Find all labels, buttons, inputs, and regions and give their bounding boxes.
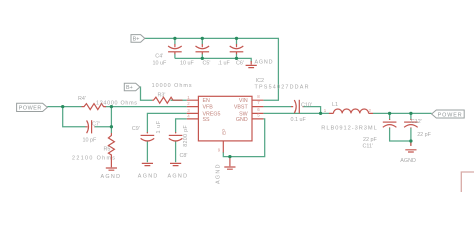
svg-text:22 pF: 22 pF [363, 137, 377, 143]
svg-text:8: 8 [257, 94, 260, 99]
svg-text:B+: B+ [133, 36, 140, 42]
svg-text:.1 uF: .1 uF [218, 61, 231, 67]
svg-text:R4': R4' [78, 96, 86, 102]
svg-text:124000 Ohms: 124000 Ohms [96, 101, 137, 107]
svg-text:2: 2 [187, 101, 190, 106]
svg-text:C8': C8' [180, 153, 188, 159]
svg-text:7: 7 [257, 100, 260, 105]
svg-text:AGND: AGND [138, 173, 158, 179]
svg-text:EN: EN [203, 98, 211, 104]
svg-text:C9': C9' [132, 126, 140, 132]
svg-text:AGND: AGND [215, 164, 221, 184]
svg-text:R3': R3' [158, 93, 166, 99]
svg-text:VFB: VFB [203, 105, 214, 111]
svg-text:10 uF: 10 uF [153, 61, 167, 67]
svg-text:C10': C10' [301, 102, 312, 108]
svg-text:AGND: AGND [101, 174, 121, 180]
svg-text:POWER: POWER [19, 105, 42, 111]
svg-text:VIN: VIN [239, 98, 248, 104]
svg-text:C7': C7' [92, 122, 100, 128]
svg-text:C12': C12' [411, 119, 422, 125]
svg-text:POWER: POWER [438, 112, 462, 118]
svg-text:C4': C4' [155, 54, 163, 60]
svg-text:1: 1 [324, 108, 327, 113]
svg-text:10 pF: 10 pF [83, 137, 97, 143]
svg-text:TPS54027DDAR: TPS54027DDAR [255, 85, 309, 91]
svg-text:22 pF: 22 pF [417, 132, 431, 138]
svg-text:VBST: VBST [234, 105, 249, 111]
svg-text:1: 1 [187, 95, 190, 100]
svg-text:GND: GND [236, 117, 248, 123]
svg-text:2: 2 [369, 108, 372, 113]
svg-text:3: 3 [187, 108, 190, 113]
svg-text:L1: L1 [332, 102, 338, 108]
svg-text:10000 Ohms: 10000 Ohms [152, 83, 192, 89]
svg-text:C11': C11' [363, 144, 374, 150]
svg-text:C5': C5' [203, 61, 211, 67]
svg-text:6: 6 [257, 107, 260, 112]
svg-text:EP: EP [222, 129, 227, 135]
svg-text:AGND: AGND [400, 158, 416, 164]
svg-text:8200 pF: 8200 pF [183, 125, 189, 147]
svg-text:IC2: IC2 [256, 78, 264, 84]
svg-text:AGND: AGND [255, 59, 273, 65]
svg-text:AGND: AGND [168, 173, 188, 179]
svg-text:22100 Ohms: 22100 Ohms [72, 156, 115, 162]
svg-text:0.1 uF: 0.1 uF [291, 117, 307, 123]
svg-text:B+: B+ [126, 85, 133, 91]
svg-text:RLB0912-3R3ML: RLB0912-3R3ML [321, 125, 377, 131]
svg-text:1 uF: 1 uF [156, 120, 162, 133]
svg-text:R5': R5' [104, 147, 112, 153]
svg-text:SS: SS [203, 117, 211, 123]
svg-text:4: 4 [187, 114, 190, 119]
svg-text:10 uF: 10 uF [180, 61, 194, 67]
svg-text:C6': C6' [236, 61, 244, 67]
svg-text:9: 9 [218, 147, 221, 152]
